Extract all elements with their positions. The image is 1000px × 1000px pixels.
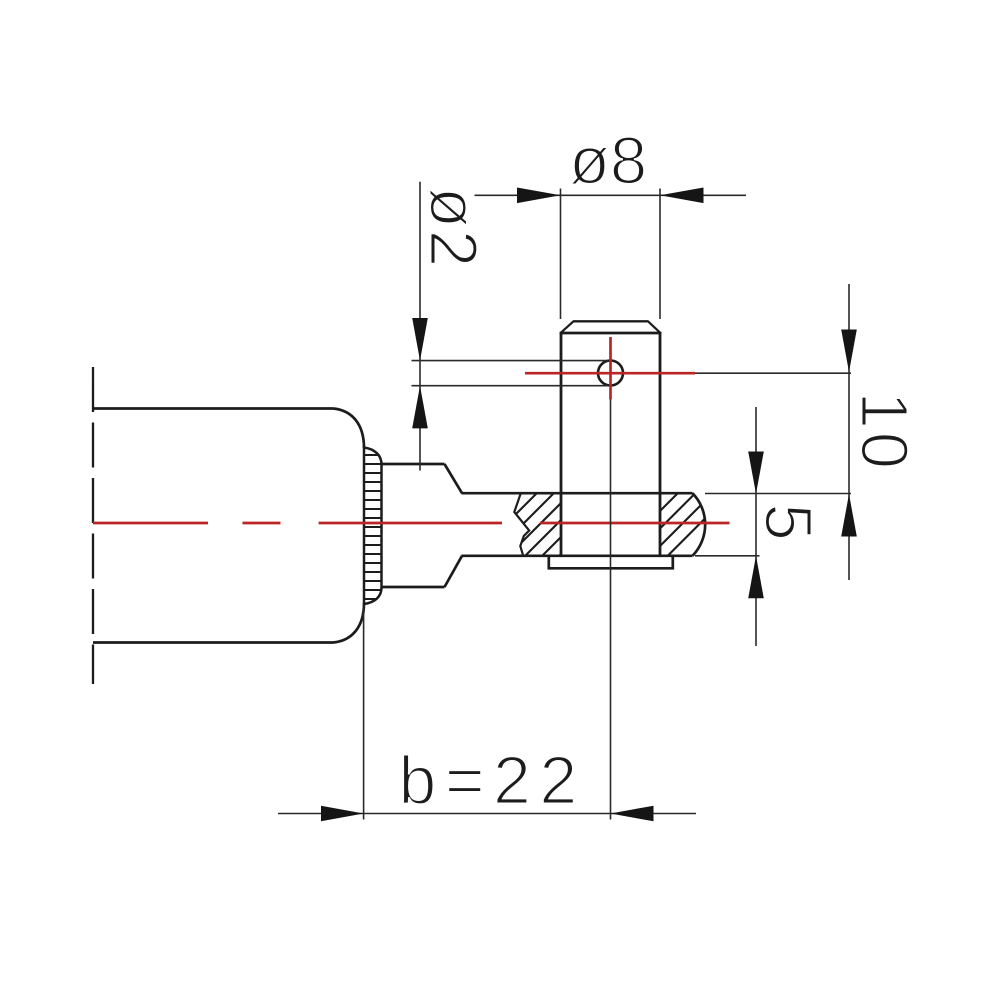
taper top — [445, 464, 463, 493]
arrow b22 left — [321, 806, 364, 822]
ext line 10 top (hole center to right) — [695, 372, 851, 374]
ext line shaft top to right — [705, 493, 851, 495]
cylinder body top edge — [93, 407, 334, 410]
arrow o2 top — [412, 318, 428, 361]
cylinder body break line (dashed) — [92, 367, 94, 684]
arrow 5 top — [748, 452, 764, 494]
svg-text:10: 10 — [847, 392, 922, 473]
ext lines o2 — [412, 360, 609, 362]
dim line o8 — [475, 194, 747, 196]
ext line b22 right / hole center vertical — [610, 400, 612, 820]
left hatch lines — [470, 488, 627, 560]
dim line o2 — [419, 182, 421, 471]
knurl ticks — [363, 455, 383, 599]
washer flange — [549, 556, 673, 569]
arrow 10 bottom — [841, 494, 857, 537]
arrow o2 bottom — [412, 386, 428, 429]
red main centerline — [93, 522, 730, 525]
dim line b22 — [278, 813, 696, 815]
shaft bottom edge / washer top — [462, 554, 693, 557]
cylinder body top-right corner — [334, 409, 365, 449]
red hole crosshair horizontal — [525, 372, 695, 375]
arrow o8 right — [660, 188, 704, 204]
right hatch lines — [594, 488, 736, 560]
arrows — [321, 188, 857, 822]
red hole crosshair vertical — [609, 337, 612, 400]
collar top edge — [382, 463, 445, 466]
hole circle — [598, 361, 623, 386]
left hatch break boundary (zigzag) — [514, 493, 529, 556]
ext lines o8 — [560, 189, 562, 320]
svg-text:5: 5 — [751, 504, 826, 541]
dim line 5 — [755, 407, 757, 646]
domed rivet end arc — [693, 493, 706, 556]
cylinder body bottom-right corner — [334, 603, 365, 643]
pin right edge — [659, 333, 662, 556]
arrow 10 top — [841, 330, 857, 373]
taper bottom — [445, 556, 463, 587]
ext line b22 left — [363, 606, 365, 820]
dimension thin lines — [278, 182, 851, 820]
arrow o8 left — [517, 188, 561, 204]
shaft top edge — [462, 492, 693, 495]
cylinder body bottom edge — [93, 641, 334, 644]
ext line shaft bottom to right — [695, 555, 760, 557]
svg-text:ø8: ø8 — [569, 124, 647, 199]
collar bottom edge — [382, 586, 445, 589]
pin top edge — [560, 332, 662, 335]
svg-text:ø2: ø2 — [416, 187, 491, 269]
knurled ring outline — [364, 448, 382, 605]
dim line 10 — [848, 284, 850, 580]
arrow b22 right — [611, 806, 654, 822]
pin chamfer top — [573, 320, 649, 322]
pin chamfer sides — [561, 321, 660, 332]
arrow 5 bottom — [748, 556, 764, 599]
pin left edge — [560, 333, 563, 556]
svg-text:b=22: b=22 — [399, 743, 586, 819]
